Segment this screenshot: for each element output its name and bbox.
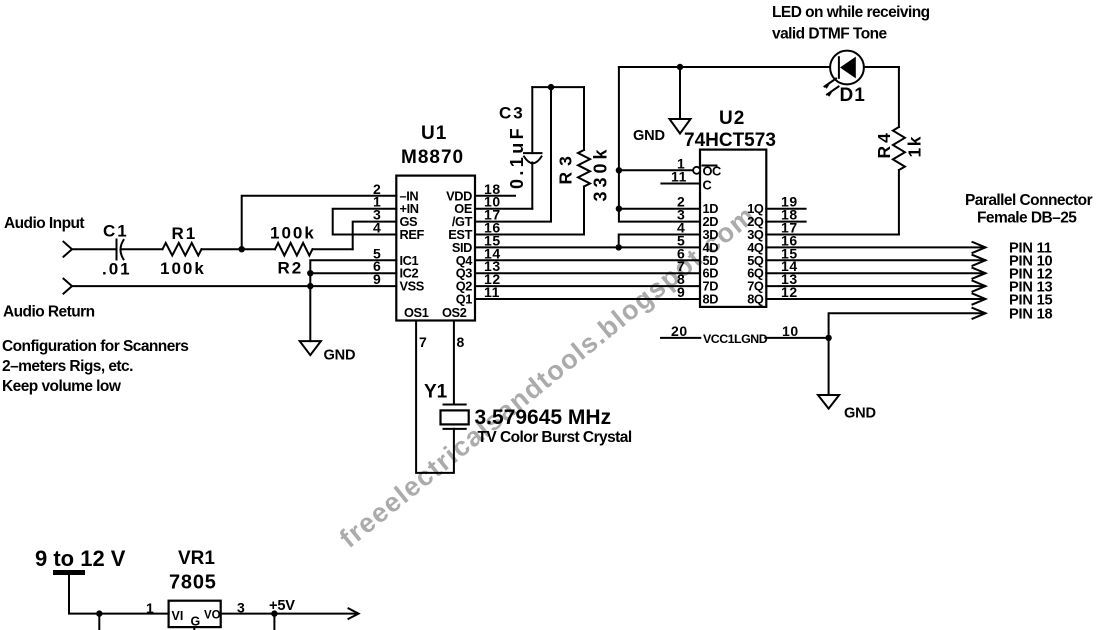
- svg-text:C: C: [703, 178, 712, 193]
- wire C1 to R1: [122, 248, 163, 250]
- wire R2 to GS corner: [313, 248, 353, 250]
- wire VDD stub: [475, 195, 515, 197]
- crystal Y1: [444, 404, 466, 406]
- svg-text:R4: R4: [874, 130, 894, 158]
- resistor R3 330k: [583, 87, 585, 234]
- svg-text:REF: REF: [400, 227, 425, 242]
- svg-text:Configuration for Scanners: Configuration for Scanners: [2, 338, 188, 355]
- wire GND drop: [679, 67, 681, 119]
- wire 3Q to R4: [766, 234, 899, 236]
- svg-text:VR1: VR1: [178, 548, 215, 569]
- svg-text:0.1uF: 0.1uF: [507, 125, 527, 189]
- svg-text:100k: 100k: [160, 259, 206, 278]
- U2 C stub pin 11: [661, 183, 700, 185]
- wire +IN to REF: [333, 209, 397, 235]
- svg-text:VI: VI: [172, 609, 184, 623]
- wire -IN: [242, 196, 397, 249]
- svg-text:R3: R3: [556, 150, 576, 184]
- wire audio return to VSS: [72, 285, 396, 287]
- svg-text:Audio Input: Audio Input: [4, 215, 84, 232]
- svg-text:8: 8: [457, 334, 465, 350]
- wire IC2: [310, 272, 396, 274]
- svg-text:G: G: [191, 615, 201, 629]
- resistor R2 100k: [275, 243, 312, 256]
- svg-text:330k: 330k: [591, 145, 611, 201]
- wire LED to R4 corner: [864, 66, 899, 68]
- ground (bottom right): [818, 395, 839, 409]
- wire /GT up to mid rail: [475, 87, 551, 222]
- wire EST to R3: [475, 234, 584, 236]
- svg-text:74HCT573: 74HCT573: [684, 130, 776, 151]
- ground (top, near U2): [670, 119, 691, 134]
- arrowheads to DB25: [973, 242, 986, 253]
- svg-text:VSS: VSS: [400, 279, 425, 294]
- wire SID long to U2 4D with branch to 3D: [475, 246, 700, 248]
- svg-text:U1: U1: [421, 123, 447, 144]
- svg-text:OS2: OS2: [442, 305, 467, 320]
- svg-text:7: 7: [419, 334, 427, 350]
- junction on top rail: [677, 64, 683, 70]
- VCC/GND pin line of U2: [661, 337, 700, 339]
- input connector chevron (audio input): [64, 242, 73, 257]
- return connector chevron (audio return): [64, 279, 73, 294]
- svg-text:9: 9: [677, 284, 685, 300]
- resistor R4 1k: [898, 67, 900, 235]
- svg-text:10: 10: [782, 323, 799, 339]
- svg-text:1k: 1k: [905, 135, 925, 157]
- svg-text:2–meters Rigs, etc.: 2–meters Rigs, etc.: [2, 358, 133, 375]
- svg-text:C3: C3: [499, 104, 525, 123]
- svg-text:8D: 8D: [703, 292, 719, 307]
- svg-text:VCC1LGND: VCC1LGND: [703, 332, 768, 346]
- wire OC: [619, 169, 693, 171]
- mid rail (C3/R3 top): [532, 86, 584, 88]
- svg-text:U2: U2: [719, 108, 745, 129]
- svg-text:.01: .01: [102, 260, 132, 279]
- svg-text:20: 20: [671, 323, 688, 339]
- svg-text:Parallel Connector: Parallel Connector: [965, 192, 1093, 209]
- wire audio input: [72, 248, 116, 250]
- capacitor C1 .01: [116, 240, 118, 260]
- node: top rail: [619, 66, 830, 68]
- wire OE to C3: [475, 208, 532, 210]
- svg-text:LED on while receiving: LED on while receiving: [772, 4, 930, 21]
- wire 1Q stub: [766, 208, 805, 210]
- vertical bus at x=619 (rail to U2 OC/1D/2D): [619, 67, 700, 222]
- wire 2Q stub: [766, 221, 805, 223]
- svg-text:9 to 12 V: 9 to 12 V: [35, 546, 126, 571]
- svg-text:GND: GND: [844, 406, 876, 422]
- svg-text:GND: GND: [324, 348, 356, 364]
- svg-text:+5V: +5V: [269, 598, 295, 614]
- wire 1D: [619, 208, 700, 210]
- svg-text:GND: GND: [633, 128, 665, 144]
- ground (below R2 area): [300, 341, 321, 355]
- capacitor C3 0.1uF: [531, 87, 533, 153]
- wire PIN18 line to ground: [829, 313, 985, 395]
- wire +5V out: [221, 613, 357, 615]
- svg-text:D1: D1: [840, 85, 866, 106]
- svg-text:M8870: M8870: [401, 147, 464, 168]
- svg-text:1: 1: [146, 600, 154, 616]
- svg-text:3.579645 MHz: 3.579645 MHz: [475, 406, 612, 429]
- wire 4Q-8Q to DB25: [766, 246, 985, 248]
- wire GS down to R2: [353, 222, 397, 250]
- svg-text:Audio Return: Audio Return: [3, 304, 95, 321]
- svg-text:Y1: Y1: [424, 382, 448, 403]
- svg-text:100k: 100k: [270, 224, 316, 243]
- svg-text:Female DB–25: Female DB–25: [977, 210, 1077, 227]
- svg-text:7805: 7805: [169, 572, 217, 594]
- svg-text:PIN 18: PIN 18: [1009, 307, 1052, 323]
- svg-text:R1: R1: [172, 224, 198, 243]
- svg-text:VO: VO: [204, 610, 221, 622]
- LED D1: [830, 51, 864, 85]
- wire R1 to R2: [202, 248, 276, 250]
- svg-text:11: 11: [671, 169, 687, 185]
- wire IC1 chain down to ground: [310, 260, 396, 341]
- op chip U1 M8870 box: [396, 176, 475, 321]
- svg-text:valid DTMF Tone: valid DTMF Tone: [772, 26, 888, 43]
- svg-text:OS1: OS1: [404, 305, 429, 320]
- svg-text:TV Color Burst Crystal: TV Color Burst Crystal: [478, 429, 632, 446]
- latch U2 74HCT573 box: [700, 150, 766, 307]
- pin 1 bubble: [693, 167, 700, 174]
- svg-text:8Q: 8Q: [747, 292, 764, 307]
- junction -IN: [239, 246, 245, 252]
- crystal Y1 wires: [416, 321, 454, 473]
- svg-text:Keep volume low: Keep volume low: [2, 378, 122, 395]
- wire Q4-Q1 to U2 5D-8D: [475, 259, 700, 261]
- svg-text:R2: R2: [278, 259, 304, 278]
- resistor R1 100k: [163, 243, 202, 256]
- svg-text:C1: C1: [103, 222, 129, 241]
